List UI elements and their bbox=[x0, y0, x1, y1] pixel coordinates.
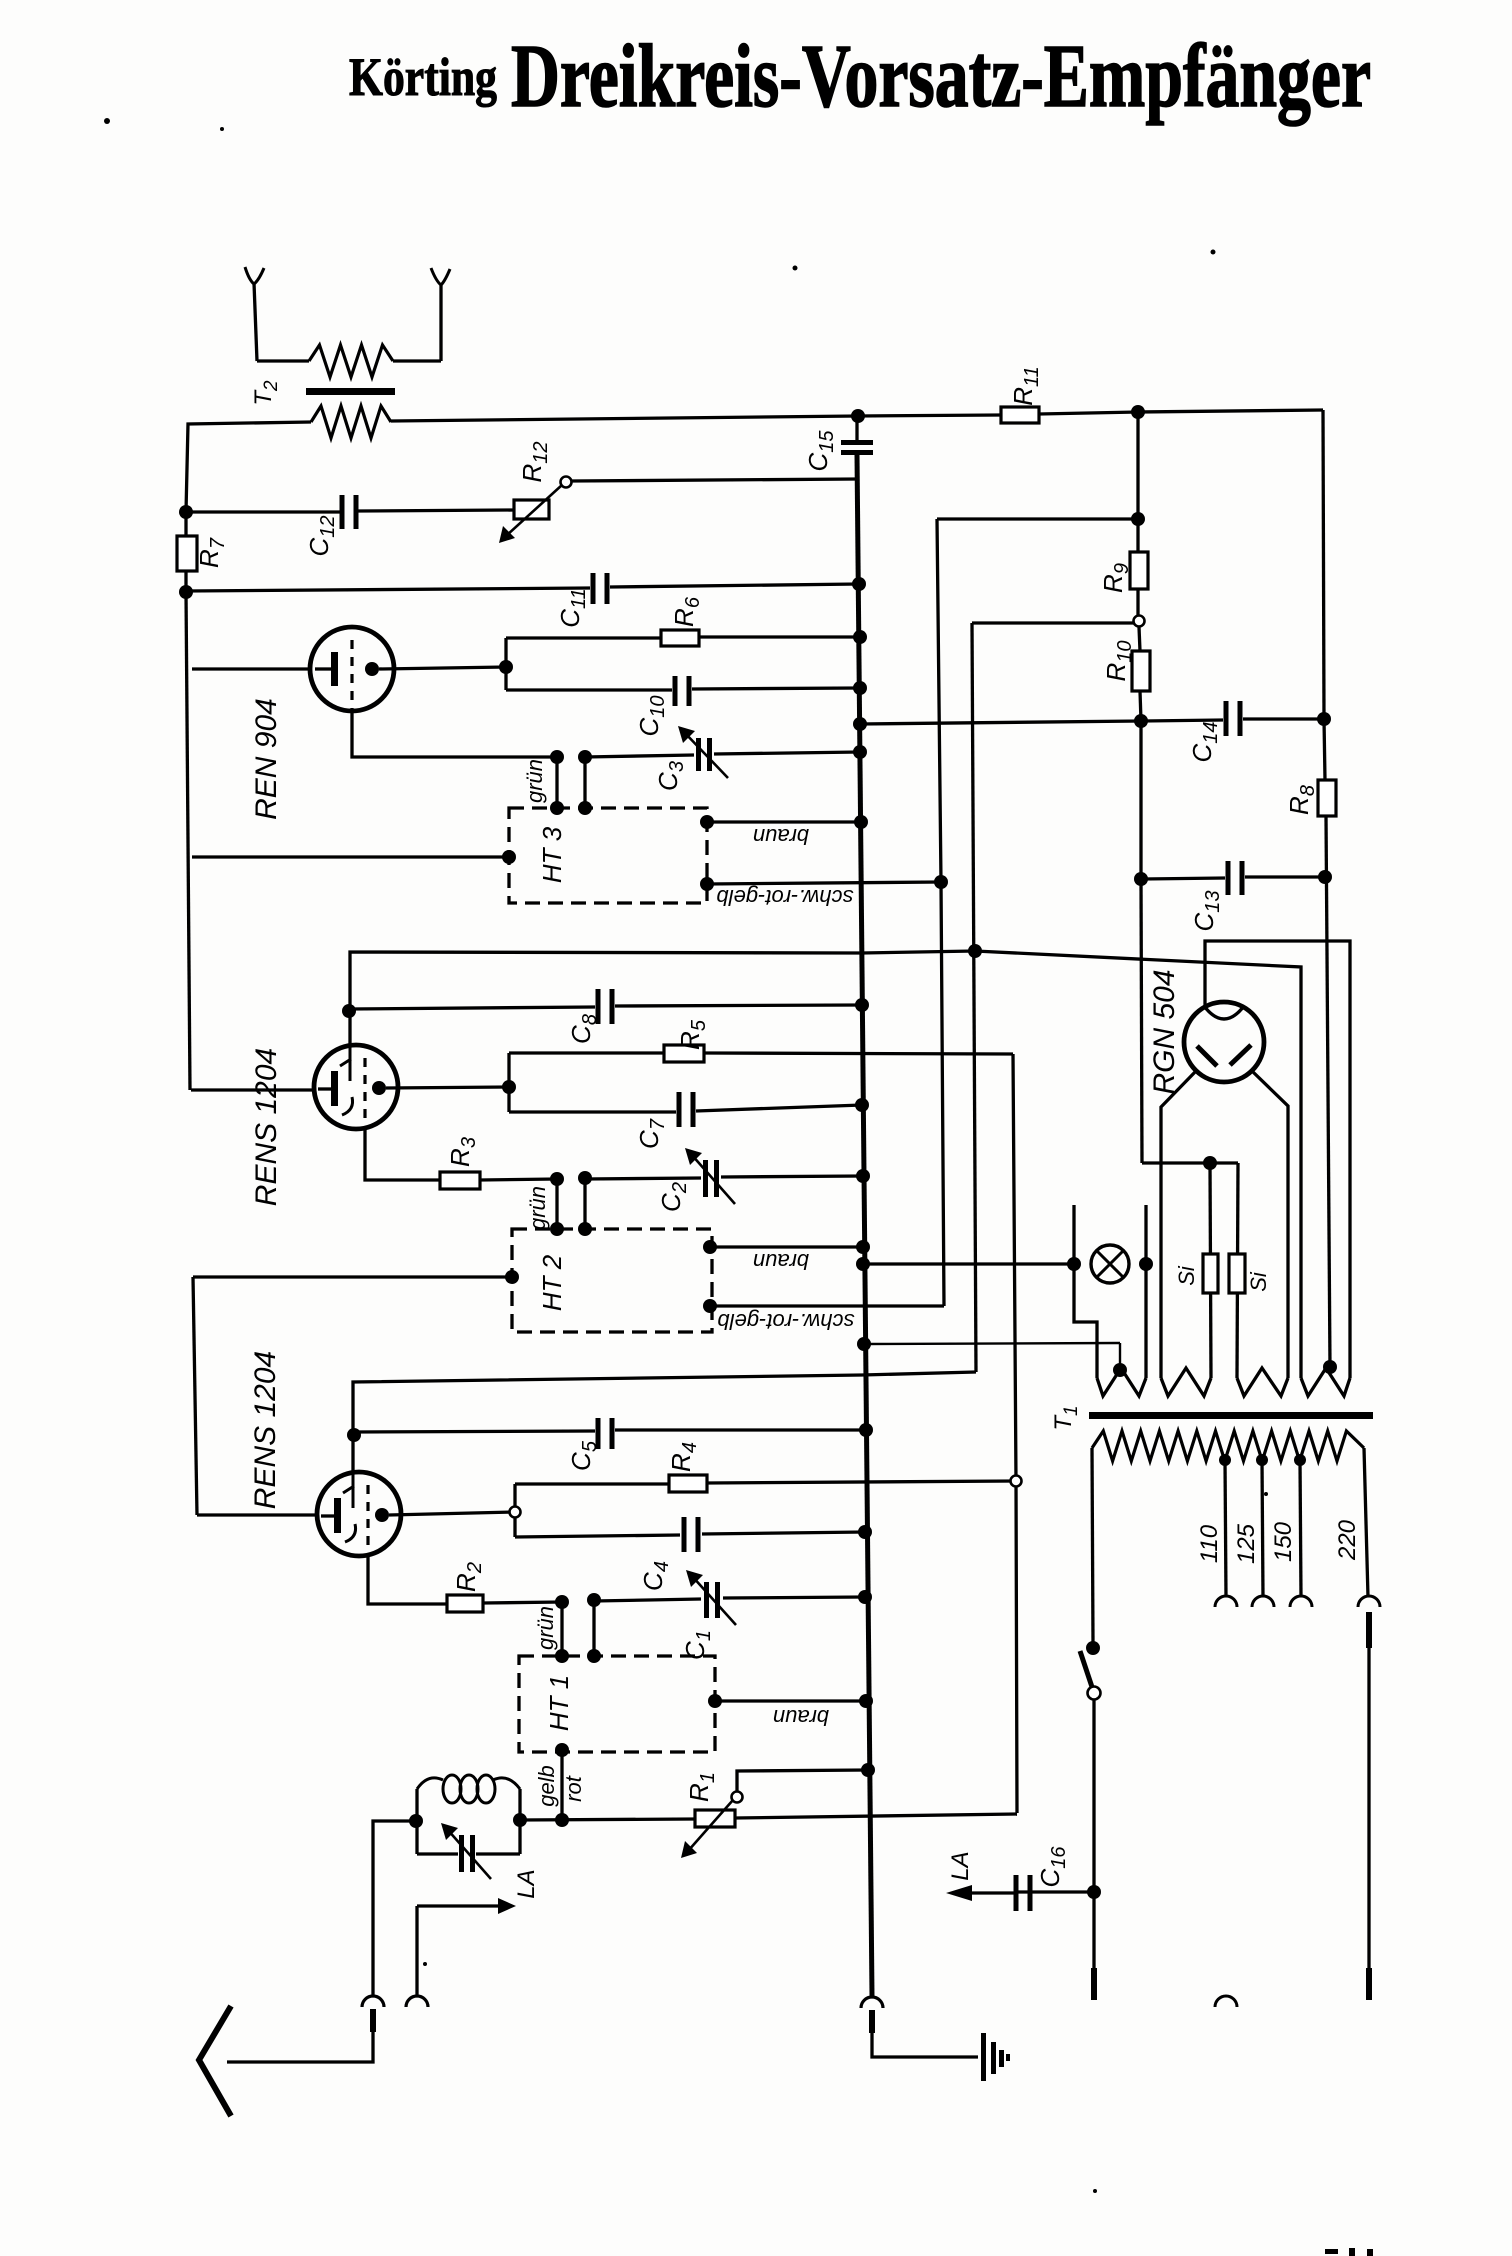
socket 110 bbox=[1215, 1596, 1237, 1607]
potentiometer R1 wiper bbox=[688, 1800, 733, 1851]
main cathode bus bbox=[857, 455, 872, 1996]
node C1-bus bbox=[858, 1590, 872, 1604]
T1 core bbox=[1089, 1412, 1373, 1419]
heater winding tap wire bbox=[857, 1337, 871, 1351]
capacitor C5 bbox=[596, 1418, 601, 1449]
variable capacitor C1 bbox=[704, 1582, 709, 1618]
scan specks bbox=[104, 118, 110, 124]
R5/C7 junction bbox=[507, 1053, 510, 1112]
plug 220 bbox=[1366, 1612, 1372, 1648]
socket 125 bbox=[1252, 1596, 1274, 1607]
C1 stub stage3 bbox=[587, 1593, 601, 1607]
wire tap 110 bbox=[1225, 1460, 1226, 1597]
svg-text:HT 2: HT 2 bbox=[537, 1254, 567, 1311]
tube RGN504 envelope bbox=[1184, 1002, 1264, 1082]
node C13 left bbox=[1134, 872, 1148, 886]
svg-text:RENS 1204: RENS 1204 bbox=[249, 1351, 282, 1509]
svg-text:schw.-rot-gelb: schw.-rot-gelb bbox=[718, 1309, 855, 1334]
wire C10 bbox=[506, 688, 672, 691]
node C2-bus bbox=[856, 1169, 870, 1183]
svg-text:Körting: Körting bbox=[349, 47, 497, 107]
coil loop right side bbox=[518, 1789, 521, 1854]
HT1 bottom stub gelb/rot bbox=[555, 1743, 569, 1757]
capacitor C13 bbox=[1226, 861, 1231, 895]
T1 primary winding section 1 bbox=[1097, 1368, 1146, 1396]
wire HT1 braun bbox=[708, 1694, 722, 1708]
node rail-R9 column bbox=[1131, 405, 1145, 419]
wire lamp right to winding bbox=[1144, 1264, 1147, 1378]
T1 secondary left lead to switch bbox=[1092, 1448, 1093, 1642]
grid bias column bbox=[972, 623, 976, 1372]
node grid column stage2 bbox=[968, 944, 982, 958]
wire tube2 cathode right bbox=[386, 1087, 509, 1088]
tube REN904 grid bbox=[350, 640, 353, 710]
svg-text:220: 220 bbox=[1334, 1519, 1361, 1561]
grid stub gruen stage3 bbox=[555, 1595, 569, 1609]
node C5-bus bbox=[859, 1423, 873, 1437]
coil loop left side bbox=[415, 1789, 418, 1854]
svg-text:110: 110 bbox=[1196, 1524, 1223, 1563]
page artifact marks bbox=[1325, 2249, 1338, 2254]
wire coil to R1 bbox=[520, 1819, 695, 1820]
wire R4 bbox=[515, 1482, 669, 1485]
tube RENS1204 mid envelope bbox=[314, 1045, 398, 1129]
svg-text:Si: Si bbox=[1174, 1265, 1199, 1286]
resistor R6 bbox=[661, 630, 699, 646]
potentiometer R12 body bbox=[514, 500, 549, 519]
svg-text:gelb: gelb bbox=[534, 1765, 559, 1807]
tube REN904 envelope bbox=[310, 627, 394, 711]
wire R10-C13 column bbox=[1139, 721, 1142, 879]
wire right column to C14 bbox=[1323, 410, 1324, 719]
wire HT3 braun bbox=[700, 815, 714, 829]
switch lower wire bbox=[1092, 1700, 1095, 1886]
wire C4 bbox=[515, 1535, 680, 1537]
tap node T1 primary 1 bbox=[1113, 1363, 1127, 1377]
node bus heater-wire upper bbox=[853, 717, 867, 731]
node C8 junction bbox=[342, 1004, 356, 1018]
tube RGN504 anode right bbox=[1230, 1045, 1251, 1065]
node C5 junction bbox=[347, 1428, 361, 1442]
transformer T2 secondary winding bbox=[311, 406, 391, 438]
tube2 cathode bbox=[372, 1081, 386, 1095]
wire bus to C14 row bbox=[860, 721, 1141, 724]
wire C5 bbox=[354, 1431, 595, 1432]
lamp stub right bbox=[1144, 1205, 1147, 1264]
wire tube3 bottom bbox=[368, 1556, 447, 1604]
wire HT3 schw-rot-gelb bbox=[700, 877, 714, 891]
svg-text:grün: grün bbox=[522, 759, 547, 803]
tube3 grid dashed bbox=[366, 1485, 369, 1555]
resistor R3 bbox=[440, 1172, 480, 1189]
node R9/R10 junction bbox=[1136, 589, 1139, 621]
capacitor C11 bbox=[591, 573, 596, 604]
wire T2 secondary right to R11 rail bbox=[391, 416, 858, 421]
tube3 anode bbox=[321, 1514, 335, 1517]
grid stub gruen stage1 bbox=[550, 750, 564, 764]
wire HT2 braun bbox=[703, 1240, 717, 1254]
svg-text:schw.-rot-gelb: schw.-rot-gelb bbox=[717, 885, 854, 910]
capacitor C14 bbox=[1224, 701, 1229, 736]
node C3-bus bbox=[853, 745, 867, 759]
wire C1 bbox=[594, 1599, 701, 1601]
resistor R4 bbox=[669, 1475, 707, 1492]
wire C13 bbox=[1141, 878, 1225, 879]
socket 220 bbox=[1358, 1596, 1380, 1607]
capacitor C10 bbox=[673, 676, 678, 706]
wire tap 150 bbox=[1300, 1460, 1301, 1597]
tube REN904 cathode bbox=[365, 662, 379, 676]
fuse Si 1 bbox=[1203, 1254, 1218, 1293]
socket LA right bbox=[406, 1996, 428, 2007]
transformer T2 primary winding bbox=[257, 359, 309, 362]
node C11-bus bbox=[852, 577, 866, 591]
T1 secondary right lead 220 bbox=[1364, 1448, 1368, 1597]
antenna symbol bbox=[199, 2006, 231, 2116]
svg-text:REN 904: REN 904 bbox=[250, 698, 283, 820]
schw column bbox=[937, 519, 944, 1306]
bandfilter HT2 box bbox=[512, 1229, 712, 1332]
resistor R10 bbox=[1139, 627, 1140, 651]
socket antenna left bbox=[362, 1996, 384, 2007]
wire R1 right bbox=[735, 1814, 1017, 1818]
svg-text:braun: braun bbox=[753, 1249, 809, 1274]
bandfilter HT1 box bbox=[519, 1656, 715, 1752]
R6/C10 junction bbox=[504, 638, 507, 690]
svg-text:RGN 504: RGN 504 bbox=[1148, 969, 1181, 1094]
RGN top lead bbox=[1205, 941, 1350, 1378]
node C10-bus bbox=[853, 681, 867, 695]
T1 primary winding section 2 bbox=[1161, 1368, 1211, 1396]
wire HT3 left bbox=[192, 855, 509, 858]
svg-text:grün: grün bbox=[533, 1606, 558, 1650]
left column stage3 link bbox=[193, 1277, 197, 1515]
potentiometer R12 wiper bbox=[506, 485, 562, 536]
node C14 left bbox=[1134, 714, 1148, 728]
fuse Si 2 bbox=[1229, 1254, 1245, 1293]
capacitor C15 bbox=[855, 416, 858, 441]
node C4-bus bbox=[858, 1525, 872, 1539]
svg-text:grün: grün bbox=[525, 1186, 550, 1230]
filament return wire bbox=[1142, 1161, 1238, 1164]
C2 stub stage2 bbox=[578, 1171, 592, 1185]
ring R4 junction bbox=[1011, 1476, 1022, 1487]
wire top rail bbox=[858, 415, 1001, 416]
tube RGN504 filament dip bbox=[1204, 1006, 1244, 1019]
wire tube3 grid left bbox=[197, 1513, 317, 1516]
antenna input prong left bbox=[245, 267, 264, 284]
tube2 screen grid bbox=[340, 1045, 353, 1115]
resistor R5 bbox=[664, 1045, 704, 1062]
wire C11 bbox=[186, 588, 590, 591]
svg-text:HT 3: HT 3 bbox=[537, 826, 567, 883]
switch column lower end bbox=[1092, 1892, 1095, 1968]
resistor R7 bbox=[184, 512, 187, 536]
resistor R9 bbox=[1136, 412, 1139, 552]
T1 secondary winding bbox=[1092, 1431, 1364, 1461]
potentiometer R1 body bbox=[695, 1810, 735, 1827]
transformer T2 core bbox=[306, 388, 395, 395]
variable capacitor C3 bbox=[696, 738, 701, 771]
wire C3 bbox=[585, 755, 694, 757]
capacitor C7 bbox=[677, 1092, 682, 1127]
node schw column stage1 bbox=[934, 875, 948, 889]
node C16 bbox=[1087, 1885, 1101, 1899]
resistor R8 bbox=[1318, 780, 1336, 816]
wire lamp left to winding bbox=[1074, 1264, 1097, 1378]
svg-text:braun: braun bbox=[773, 1705, 829, 1730]
tube2 anode bbox=[318, 1087, 332, 1090]
wire LA socket bbox=[415, 1906, 418, 1996]
svg-text:rot: rot bbox=[561, 1775, 586, 1802]
tap 110 node bbox=[1219, 1454, 1231, 1466]
wire R5 bbox=[509, 1051, 664, 1054]
socket bus bottom bbox=[861, 1997, 883, 2008]
wire tube1 bottom bbox=[352, 711, 557, 757]
wire coil left to socket bbox=[373, 1821, 416, 1996]
node C8-bus bbox=[855, 998, 869, 1012]
wire tap 125 bbox=[1262, 1460, 1263, 1597]
node rail-bus bbox=[851, 409, 865, 423]
svg-text:150: 150 bbox=[1270, 1521, 1297, 1562]
wire lamp feed from bus bbox=[856, 1257, 870, 1271]
wire grid feed right bbox=[975, 951, 1301, 1378]
wire tube2 grid left bbox=[191, 1088, 314, 1091]
wire C14 bbox=[1141, 720, 1223, 721]
wire socket to antenna bbox=[227, 2032, 373, 2062]
tube3 cathode bbox=[375, 1508, 389, 1522]
coil loop bottom with variable capacitor bbox=[417, 1852, 458, 1855]
svg-text:Si: Si bbox=[1246, 1271, 1271, 1292]
C3 stub stage1 bbox=[578, 750, 592, 764]
tap 125 node bbox=[1256, 1454, 1268, 1466]
T1 primary winding section 3 bbox=[1237, 1368, 1288, 1396]
wire tube3 grid top bbox=[353, 1375, 862, 1473]
svg-text:Dreikreis-Vorsatz-Empfänger: Dreikreis-Vorsatz-Empfänger bbox=[511, 27, 1371, 126]
wire R6 bbox=[506, 636, 661, 639]
node R6-bus bbox=[853, 630, 867, 644]
resistor R8 column bbox=[1324, 719, 1325, 780]
node C13 right bbox=[1318, 870, 1332, 884]
tube RGN504 anode left bbox=[1197, 1046, 1217, 1066]
capacitor C8 bbox=[596, 989, 601, 1024]
wire C12 bbox=[186, 510, 340, 513]
wire R5 column down bbox=[1013, 1054, 1017, 1813]
wire R12 wiper to bus bbox=[571, 479, 858, 481]
tuning coil bbox=[417, 1778, 443, 1789]
capacitor C16 bbox=[1014, 1875, 1019, 1911]
wire to ground bbox=[872, 2033, 978, 2057]
wire tube1 grid bbox=[192, 667, 311, 670]
ring R9 R10 junction bbox=[1134, 616, 1145, 627]
wire HT2 schw-rot-gelb bbox=[703, 1299, 717, 1313]
tap node T1 primary 4 bbox=[1323, 1360, 1337, 1374]
svg-text:HT 1: HT 1 bbox=[544, 1675, 574, 1731]
tap 150 node bbox=[1294, 1454, 1306, 1466]
node R7/C11 bbox=[179, 585, 193, 599]
bandfilter HT3 box bbox=[509, 808, 707, 903]
capacitor C12 bbox=[340, 495, 345, 529]
wire tube2 grid top bbox=[350, 952, 862, 1045]
wire T2 secondary left to C12 node bbox=[186, 422, 311, 512]
capacitor C4 bbox=[682, 1517, 687, 1552]
wire tube2 bottom bbox=[365, 1129, 440, 1180]
LA arrow bottom middle bbox=[946, 1885, 972, 1901]
wire R9 feed bbox=[937, 517, 1138, 520]
svg-text:LA: LA bbox=[513, 1869, 540, 1898]
wire R1 wiper to bus bbox=[737, 1770, 868, 1791]
R4/C4 junction bbox=[513, 1484, 516, 1537]
node coil right bbox=[513, 1813, 527, 1827]
tube REN904 anode bbox=[315, 667, 331, 670]
node C12/R7 bbox=[179, 505, 193, 519]
resistor R11 bbox=[1001, 407, 1039, 423]
svg-text:RENS 1204: RENS 1204 bbox=[250, 1048, 283, 1206]
socket 150 bbox=[1290, 1596, 1312, 1607]
variable capacitor C2 bbox=[703, 1160, 708, 1197]
resistor R2 bbox=[447, 1595, 483, 1612]
wire C16 bbox=[1014, 1890, 1094, 1893]
T1 primary winding section 4 bbox=[1301, 1368, 1350, 1396]
tube RENS1204 bottom envelope bbox=[317, 1472, 401, 1556]
grid stub gruen stage2 bbox=[550, 1172, 564, 1186]
tube2 grid dashed bbox=[363, 1058, 366, 1128]
wire R10 feed bbox=[972, 621, 1139, 624]
svg-text:LA: LA bbox=[947, 1851, 974, 1880]
pilot lamp bbox=[1067, 1257, 1081, 1271]
wire HT2 left bbox=[193, 1275, 512, 1278]
LA arrow left-bottom bbox=[498, 1898, 516, 1914]
wire C2 bbox=[585, 1178, 701, 1179]
wire tube1 cathode to R6/C10 bbox=[379, 667, 506, 669]
antenna input prong right bbox=[431, 268, 450, 285]
tube3 screen grid bbox=[343, 1473, 356, 1542]
fuse Si 1 wire bbox=[1210, 1163, 1211, 1378]
left column wire R7 to tube2 grid bbox=[186, 592, 190, 1090]
svg-text:125: 125 bbox=[1233, 1523, 1260, 1564]
svg-text:braun: braun bbox=[753, 824, 809, 849]
RGN left lead bbox=[1161, 1071, 1196, 1378]
node C14 right bbox=[1317, 712, 1331, 726]
wire C8 bbox=[349, 1007, 595, 1009]
fuse Si 2 wire bbox=[1237, 1163, 1238, 1378]
node coil left bbox=[409, 1814, 423, 1828]
mains switch bbox=[1086, 1641, 1100, 1655]
ground symbol bbox=[981, 2033, 986, 2081]
wire tube3 cathode right bbox=[389, 1512, 515, 1515]
RGN right lead bbox=[1252, 1071, 1288, 1378]
wire C7 bbox=[509, 1110, 676, 1113]
node C7-bus bbox=[855, 1098, 869, 1112]
lamp stub left bbox=[1072, 1205, 1075, 1264]
